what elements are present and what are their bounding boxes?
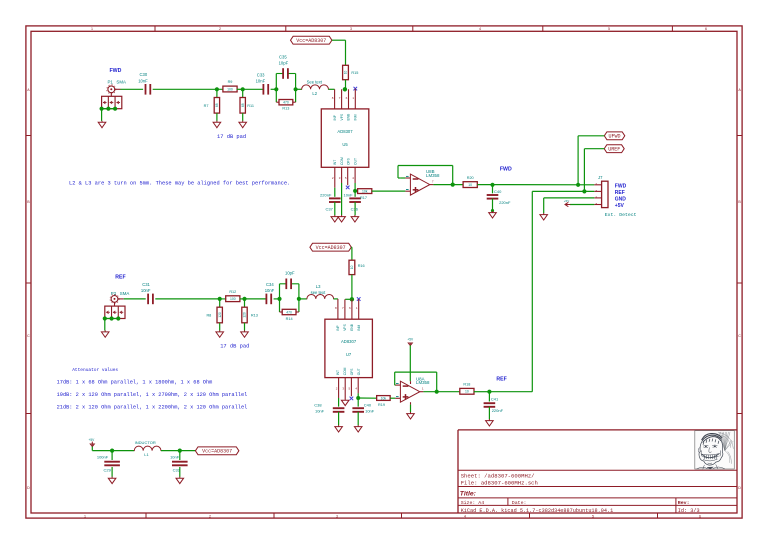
svg-text:L1: L1 [144, 452, 149, 457]
svg-text:INT: INT [336, 370, 340, 375]
svg-text:FWD: FWD [615, 183, 627, 189]
svg-text:+5V: +5V [564, 199, 569, 203]
svg-text:C34: C34 [266, 282, 274, 287]
svg-text:D: D [27, 486, 30, 490]
svg-text:1: 1 [91, 27, 93, 31]
svg-text:AD8307: AD8307 [337, 129, 353, 134]
svg-text:470: 470 [286, 310, 292, 314]
svg-text:P1: P1 [108, 80, 114, 85]
svg-text:C40: C40 [364, 403, 372, 408]
svg-text:J7: J7 [598, 175, 603, 180]
svg-text:10nF: 10nF [170, 454, 180, 459]
svg-text:File: ad8307-600MHz.sch: File: ad8307-600MHz.sch [461, 480, 538, 487]
svg-text:C: C [27, 334, 30, 338]
svg-text:4: 4 [479, 27, 481, 31]
svg-text:C33: C33 [257, 73, 265, 78]
svg-text:VPS: VPS [340, 113, 344, 120]
svg-text:R19: R19 [378, 403, 385, 407]
svg-text:1: 1 [84, 514, 86, 518]
svg-text:U5: U5 [342, 142, 348, 147]
svg-text:2: 2 [219, 27, 221, 31]
svg-text:C40: C40 [494, 189, 502, 194]
svg-text:5: 5 [592, 514, 594, 518]
svg-text:10nF: 10nF [343, 193, 353, 198]
svg-text:AD8307: AD8307 [341, 339, 357, 344]
svg-text:R11: R11 [247, 104, 254, 108]
svg-text:220nF: 220nF [499, 200, 511, 205]
svg-text:120: 120 [218, 312, 222, 318]
svg-text:REF: REF [615, 190, 625, 196]
svg-text:R15: R15 [351, 71, 358, 75]
svg-text:10: 10 [350, 265, 354, 269]
svg-text:120: 120 [243, 312, 247, 318]
svg-text:INP: INP [336, 325, 340, 331]
svg-text:C30: C30 [140, 72, 148, 77]
svg-text:C29: C29 [103, 468, 111, 473]
svg-text:INM: INM [357, 325, 361, 331]
svg-text:68: 68 [215, 103, 219, 107]
svg-text:FWD: FWD [110, 68, 122, 74]
svg-text:6: 6 [705, 27, 707, 31]
svg-text:REF: REF [115, 275, 125, 281]
svg-text:6: 6 [699, 514, 701, 518]
svg-text:3: 3 [336, 514, 338, 518]
svg-text:Date:: Date: [512, 500, 527, 506]
svg-text:C41: C41 [491, 396, 499, 401]
svg-text:R13: R13 [251, 314, 258, 318]
svg-text:Attenuator values: Attenuator values [72, 367, 118, 373]
svg-text:R17: R17 [360, 196, 367, 200]
svg-text:L3: L3 [316, 284, 321, 289]
svg-text:220nF: 220nF [492, 408, 504, 413]
svg-text:OUT: OUT [357, 368, 361, 375]
svg-text:UFWD: UFWD [609, 134, 621, 140]
svg-text:10: 10 [344, 71, 348, 75]
svg-text:10nF: 10nF [265, 288, 275, 293]
svg-text:R13: R13 [282, 107, 289, 111]
svg-text:10nF: 10nF [365, 409, 375, 414]
svg-text:10nF: 10nF [138, 78, 148, 83]
svg-text:100: 100 [230, 297, 236, 301]
svg-text:68: 68 [241, 103, 245, 107]
svg-text:SMA: SMA [116, 80, 126, 85]
svg-text:Sheet: /ad8307-600MHz/: Sheet: /ad8307-600MHz/ [461, 473, 535, 480]
svg-text:R18: R18 [463, 383, 470, 387]
svg-text:17 dB pad: 17 dB pad [220, 344, 249, 350]
svg-text:5: 5 [608, 27, 610, 31]
svg-text:17dB: 1 x 68 Ohm parallel, 1: 17dB: 1 x 68 Ohm parallel, 1 x 1800hm, 1… [57, 379, 213, 385]
svg-text:D: D [738, 486, 741, 490]
svg-text:R8: R8 [206, 314, 211, 318]
svg-text:R12: R12 [229, 290, 236, 294]
svg-text:INM: INM [354, 114, 358, 120]
svg-text:R14: R14 [286, 317, 293, 321]
svg-text:10k: 10k [362, 190, 368, 194]
svg-text:10pF: 10pF [279, 61, 289, 66]
svg-text:ENB: ENB [347, 113, 351, 121]
svg-text:Id: 3/3: Id: 3/3 [678, 508, 700, 514]
svg-text:+5V: +5V [407, 337, 414, 341]
svg-text:R7: R7 [204, 104, 209, 108]
svg-text:REF: REF [496, 377, 506, 383]
svg-text:C: C [738, 334, 741, 338]
svg-text:220nF: 220nF [320, 193, 332, 198]
svg-text:VPS: VPS [343, 323, 347, 330]
svg-text:COM: COM [343, 367, 347, 375]
svg-text:INT: INT [333, 160, 337, 165]
svg-text:19dB: 2 x 120 Ohm parallel, 1: 19dB: 2 x 120 Ohm parallel, 1 x 2700hm, … [57, 392, 248, 398]
svg-text:R9: R9 [228, 80, 233, 84]
svg-text:Ext. Detect: Ext. Detect [605, 212, 637, 218]
svg-text:OFS: OFS [347, 157, 351, 165]
svg-text:UREF: UREF [608, 146, 620, 152]
svg-text:10pF: 10pF [285, 271, 295, 276]
svg-text:INDUCTOR: INDUCTOR [135, 440, 156, 445]
svg-text:See text: See text [307, 79, 323, 84]
svg-text:C37: C37 [325, 206, 333, 211]
svg-text:Vcc=AD8307: Vcc=AD8307 [296, 38, 326, 44]
svg-text:100: 100 [227, 87, 233, 91]
svg-text:10: 10 [465, 390, 469, 394]
svg-text:KiCad E.D.A. kicad 5.1.7-c382: KiCad E.D.A. kicad 5.1.7-c382d34e887ubun… [461, 508, 614, 514]
svg-text:+5V: +5V [615, 203, 625, 209]
svg-text:Rev:: Rev: [678, 500, 690, 506]
svg-text:100nF: 100nF [97, 454, 109, 459]
svg-text:FWD: FWD [500, 166, 512, 172]
svg-text:GND: GND [615, 196, 627, 202]
svg-text:L2 & L3 are 3 turn on 5mm. The: L2 & L3 are 3 turn on 5mm. These may be … [69, 180, 290, 186]
svg-text:Vcc=AD8307: Vcc=AD8307 [202, 449, 232, 455]
svg-text:COM: COM [340, 157, 344, 165]
svg-text:OUT: OUT [354, 158, 358, 165]
svg-text:R20: R20 [467, 176, 474, 180]
svg-text:10k: 10k [381, 396, 387, 400]
svg-text:INP: INP [333, 114, 337, 120]
svg-text:C38: C38 [314, 403, 322, 408]
svg-text:L2: L2 [312, 91, 317, 96]
svg-text:4: 4 [464, 514, 466, 518]
svg-text:17 dB pad: 17 dB pad [217, 134, 246, 140]
svg-text:Title:: Title: [460, 490, 476, 497]
svg-text:LM358: LM358 [426, 173, 440, 178]
svg-text:R16: R16 [358, 264, 365, 268]
svg-text:OFS: OFS [350, 368, 354, 376]
svg-text:10nF: 10nF [256, 79, 266, 84]
svg-text:C31: C31 [142, 282, 150, 287]
svg-text:21dB: 2 x 120 Ohm parallel, 1: 21dB: 2 x 120 Ohm parallel, 1 x 2200hm, … [57, 405, 248, 411]
svg-text:C35: C35 [279, 54, 287, 59]
svg-text:U7: U7 [346, 352, 352, 357]
svg-text:ENB: ENB [350, 323, 354, 331]
svg-text:LM358: LM358 [416, 380, 430, 385]
svg-text:470: 470 [283, 101, 289, 105]
svg-text:10nF: 10nF [141, 288, 151, 293]
svg-text:Vcc=AD8307: Vcc=AD8307 [316, 245, 346, 251]
svg-text:Size: A4: Size: A4 [461, 500, 485, 506]
svg-text:2: 2 [209, 514, 211, 518]
svg-text:10: 10 [468, 183, 472, 187]
svg-text:3: 3 [350, 27, 352, 31]
svg-text:SMA: SMA [120, 291, 130, 296]
svg-text:10nF: 10nF [315, 409, 325, 414]
